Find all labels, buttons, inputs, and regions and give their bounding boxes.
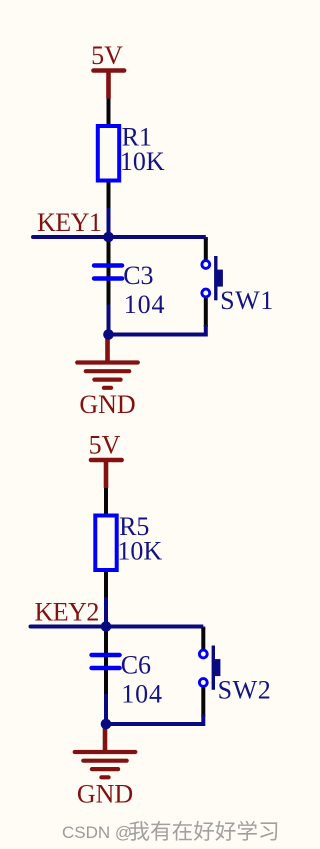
wire: switch SW2 bottom to ground node (106, 715, 203, 725)
capacitor C3 plates (94, 266, 122, 279)
capacitor designator C3 (123, 261, 153, 290)
wire: node KEY1 to switch SW1 top (109, 237, 208, 240)
power port 5V label (KEY1 circuit) (91, 41, 123, 70)
junction at ground node (103, 329, 114, 340)
power port 5V bar symbol (94, 71, 125, 99)
resistor designator R5 (119, 512, 149, 541)
junction at ground node (101, 719, 112, 730)
wire: capacitor C6 to ground node (104, 694, 108, 724)
ground symbol bars (77, 363, 138, 388)
watermark CJK glyphs (129, 821, 277, 841)
power port 5V bar symbol (91, 460, 122, 488)
wire: KEY1 stub left (33, 235, 109, 239)
ground symbol stem (105, 335, 110, 363)
ground symbol bars (75, 752, 136, 777)
capacitor value 104 (124, 290, 166, 319)
switch SW2 terminal circle 2 (199, 679, 207, 687)
capacitor C3 pin 1 / pin 2 (107, 237, 111, 305)
capacitor value 104 (121, 680, 163, 709)
resistor value 10K (117, 537, 162, 566)
switch SW1 pin 1 (204, 239, 208, 260)
svg-text:SW2: SW2 (218, 675, 272, 704)
switch SW1 terminal circle 1 (202, 261, 210, 269)
svg-text:GND: GND (79, 390, 135, 419)
capacitor C6 pin 1 / pin 2 (104, 627, 108, 695)
svg-text:104: 104 (121, 680, 163, 709)
wire: KEY2 stub left (31, 625, 107, 629)
switch SW2 pin 2 (201, 688, 205, 717)
switch designator SW2 (218, 675, 272, 704)
switch SW2 terminal circle 1 (199, 650, 207, 658)
svg-text:C6: C6 (121, 650, 151, 679)
ground symbol stem (103, 724, 108, 752)
svg-text:C3: C3 (123, 261, 153, 290)
resistor R1 pin 2 (107, 183, 111, 209)
switch SW2 actuator bar (212, 646, 215, 690)
wire: resistor R1 to node KEY1 (107, 208, 111, 237)
resistor designator R1 (122, 123, 152, 152)
net label KEY2 (35, 598, 99, 627)
svg-text:KEY1: KEY1 (37, 208, 101, 237)
svg-text:10K: 10K (120, 147, 165, 176)
ground label GND (77, 780, 133, 809)
wire: 5V to resistor R1 pin 1 (107, 99, 111, 127)
resistor R5 body (95, 516, 116, 571)
switch SW1 terminal circle 2 (202, 289, 210, 297)
resistor R1 body (98, 126, 119, 181)
power port 5V label (KEY2 circuit) (89, 431, 121, 460)
switch SW2 button (215, 659, 220, 676)
svg-text:10K: 10K (117, 537, 162, 566)
svg-text:SW1: SW1 (220, 286, 274, 315)
svg-text:KEY2: KEY2 (35, 598, 99, 627)
svg-text:104: 104 (124, 290, 166, 319)
junction node KEY1 (103, 232, 114, 243)
switch SW1 pin 2 (204, 298, 208, 327)
capacitor C6 plates (92, 655, 120, 668)
junction node KEY2 (101, 621, 112, 632)
svg-text:5V: 5V (89, 431, 121, 460)
switch SW1 button (218, 270, 223, 287)
wire: switch SW1 bottom to ground node (109, 325, 206, 335)
wire: capacitor C3 to ground node (107, 305, 111, 335)
net label KEY1 (37, 208, 101, 237)
resistor value 10K (120, 147, 165, 176)
svg-text:5V: 5V (91, 41, 123, 70)
watermark text CSDN (62, 823, 132, 842)
svg-text:CSDN @: CSDN @ (62, 823, 132, 842)
wire: 5V to resistor R5 pin 1 (104, 488, 108, 516)
capacitor designator C6 (121, 650, 151, 679)
svg-text:GND: GND (77, 780, 133, 809)
ground label GND (79, 390, 135, 419)
resistor R5 pin 2 (104, 572, 108, 598)
wire: node KEY2 to switch SW2 top (106, 627, 205, 630)
switch SW1 actuator bar (214, 256, 217, 300)
switch designator SW1 (220, 286, 274, 315)
wire: resistor R5 to node KEY2 (104, 598, 108, 627)
switch SW2 pin 1 (201, 628, 205, 649)
